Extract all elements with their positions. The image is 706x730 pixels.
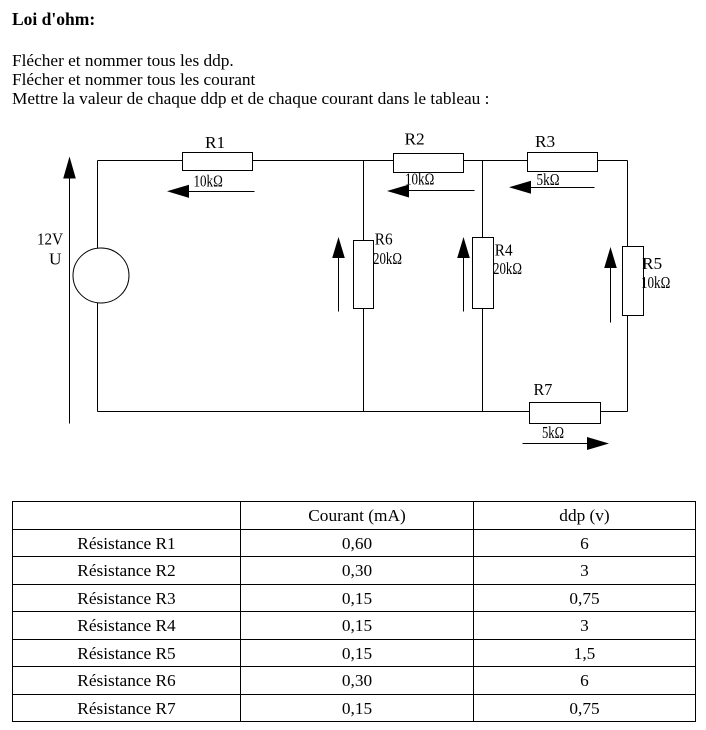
- wire R6 branch lower: [363, 309, 365, 412]
- svg-text:10kΩ: 10kΩ: [641, 273, 670, 292]
- svg-text:R3: R3: [535, 132, 555, 151]
- svg-text:R5: R5: [642, 254, 662, 273]
- svg-text:U: U: [49, 250, 62, 269]
- svg-text:R7: R7: [534, 380, 553, 399]
- svg-text:R4: R4: [495, 241, 513, 260]
- wire left branch upper: [97, 161, 99, 249]
- wire R6 branch upper: [363, 161, 365, 241]
- svg-text:20kΩ: 20kΩ: [373, 249, 402, 268]
- wire left branch lower: [97, 303, 99, 412]
- svg-text:20kΩ: 20kΩ: [493, 259, 522, 278]
- current arrow I5 (up): [604, 247, 617, 323]
- title: [12, 9, 95, 30]
- resistor R6: [354, 241, 374, 309]
- wire R4 branch upper: [482, 161, 484, 238]
- svg-text:5kΩ: 5kΩ: [542, 423, 564, 442]
- wire top: source to R1: [98, 160, 183, 162]
- svg-text:R2: R2: [405, 130, 425, 149]
- current arrow I4 (up): [457, 237, 470, 312]
- svg-text:R1: R1: [205, 133, 225, 152]
- current arrow I7 (right): [523, 437, 610, 450]
- wire top: R1 to R2 (through node of R6): [253, 160, 394, 162]
- instructions: [12, 51, 489, 109]
- wire R4 branch lower: [482, 309, 484, 412]
- resistor R5: [623, 247, 644, 316]
- wire bottom: R7 to right corner: [601, 411, 628, 413]
- current arrow I3 (left): [509, 181, 595, 194]
- resistor R3: [528, 153, 598, 172]
- resistor R7: [530, 403, 601, 424]
- results table: [12, 501, 696, 722]
- current arrow I2 (left): [387, 185, 475, 198]
- svg-text:5kΩ: 5kΩ: [537, 170, 560, 189]
- svg-text:10kΩ: 10kΩ: [405, 169, 434, 188]
- wire top: R2 to R3 (through node of R4): [464, 160, 528, 162]
- svg-text:12V: 12V: [37, 230, 63, 249]
- wire top: R3 to right corner: [598, 160, 628, 162]
- resistor R1: [183, 153, 253, 171]
- wire right branch upper: [627, 161, 629, 247]
- svg-text:10kΩ: 10kΩ: [194, 171, 223, 190]
- current arrow I1 (left): [167, 185, 255, 198]
- wire right branch lower: [627, 316, 629, 412]
- svg-text:R6: R6: [375, 229, 393, 248]
- resistor R2: [394, 154, 464, 173]
- voltage arrow U (up): [63, 157, 76, 424]
- resistor R4: [473, 238, 494, 309]
- current arrow I6 (up): [332, 237, 345, 312]
- voltage source circle: [73, 248, 129, 303]
- wire bottom: left to R7: [98, 411, 530, 413]
